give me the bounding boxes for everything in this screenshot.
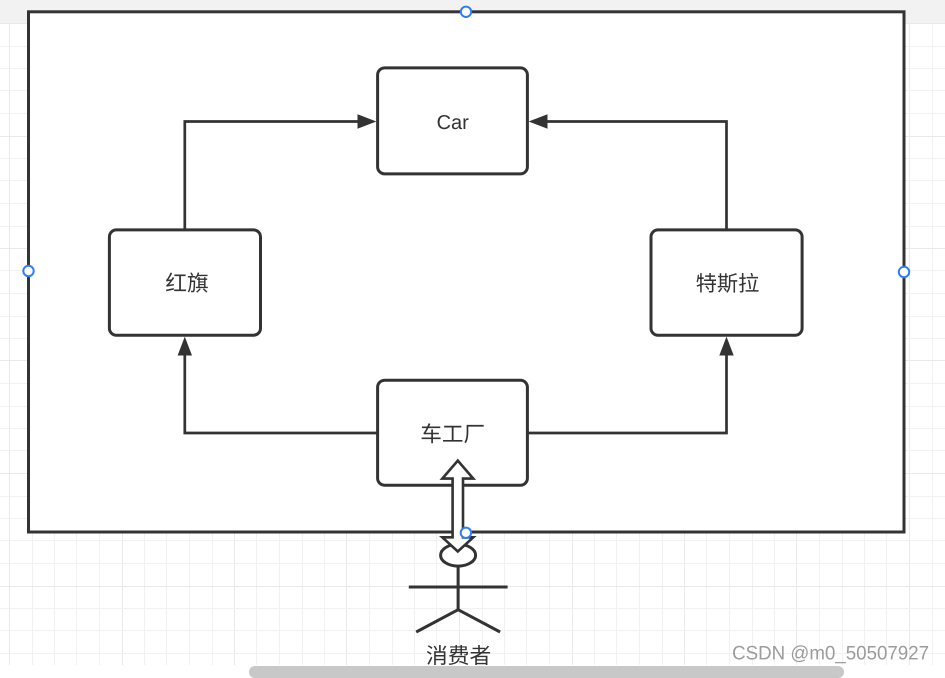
box CheGongChang	[378, 380, 528, 485]
handle left	[23, 266, 33, 276]
box Car	[378, 68, 528, 174]
box HongQi	[109, 230, 260, 335]
handle bottom	[461, 528, 471, 538]
wire CheGongChang to Tesla	[527, 355, 726, 433]
box Tesla	[651, 230, 802, 335]
wire Tesla to Car	[547, 122, 727, 230]
hollow double arrow consumer-factory	[442, 461, 473, 552]
arrowhead into Tesla bottom	[719, 337, 733, 356]
watermark CSDN	[733, 645, 928, 663]
arrowhead into Car right	[529, 114, 548, 128]
label Car	[438, 115, 469, 129]
horizontal scrollbar thumb	[249, 666, 844, 678]
actor arms	[409, 586, 508, 589]
arrowhead into Car left	[358, 114, 377, 128]
actor right leg	[458, 610, 500, 632]
arrowhead into HongQi bottom	[178, 337, 192, 356]
big selection rectangle	[29, 12, 905, 532]
actor body	[457, 566, 460, 610]
wire HongQi to Car	[185, 122, 359, 230]
wire CheGongChang to HongQi	[185, 355, 378, 433]
handle top	[461, 7, 471, 17]
top gray strip	[0, 0, 945, 23]
handle right	[899, 267, 909, 277]
actor left leg	[416, 610, 458, 632]
label CheGongChang	[422, 423, 484, 443]
label Tesla	[697, 273, 759, 293]
label HongQi	[166, 272, 208, 292]
actor head	[441, 544, 476, 566]
label consumer	[427, 645, 490, 665]
